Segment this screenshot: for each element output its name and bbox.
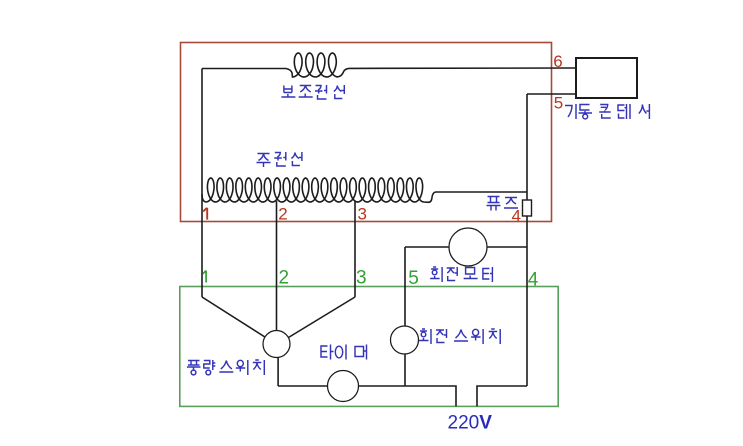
wire tap3 vertical <box>354 201 356 297</box>
wire bottom right with 220V stub <box>477 386 527 406</box>
svg-text:4: 4 <box>528 270 539 291</box>
svg-text:6: 6 <box>553 52 562 71</box>
main winding coil with exit wire to fuse <box>202 178 527 202</box>
label: fuse (퓨즈) <box>487 197 519 211</box>
fuse body <box>523 200 532 216</box>
wire tap3 diagonal to speed switch <box>286 297 355 339</box>
auxiliary winding coil with top wire <box>202 53 576 77</box>
rotation motor circle <box>449 228 487 266</box>
wire motor branch horizontal <box>405 246 527 248</box>
svg-text:3: 3 <box>356 268 367 289</box>
wire capacitor lower lead <box>527 93 576 95</box>
terminal number 1 (red) <box>203 208 207 220</box>
starting capacitor body <box>576 58 637 98</box>
wire tap2 vertical <box>276 201 278 332</box>
timer circle <box>328 371 359 402</box>
wire rotation switch vertical <box>404 247 406 386</box>
control switch group box (green) <box>180 287 558 407</box>
label: rotation switch (회전스위치) <box>419 329 500 344</box>
wire node1 vertical <box>201 69 203 298</box>
label: auxiliary winding (보조권선) <box>281 85 344 99</box>
label: starting capacitor (기동콘덴서) <box>565 104 649 119</box>
svg-text:2: 2 <box>278 205 287 224</box>
svg-text:5: 5 <box>408 268 419 289</box>
wire right vertical through fuse <box>526 94 528 386</box>
svg-text:2: 2 <box>279 268 290 289</box>
terminal number 1 (green) <box>203 271 206 283</box>
svg-text:220V: 220V <box>448 412 493 433</box>
svg-text:5: 5 <box>554 94 563 113</box>
label: fan speed switch (풍량스위치) <box>187 360 264 375</box>
fan speed switch circle <box>263 331 290 358</box>
svg-text:4: 4 <box>512 207 521 226</box>
wire bottom left with 220V stub <box>278 386 456 406</box>
label: main winding (주권선) <box>257 152 302 167</box>
svg-text:3: 3 <box>358 205 367 224</box>
label: rotation motor (회전모터) <box>430 267 492 282</box>
rotation switch circle <box>391 326 419 354</box>
wire tap1 diagonal to speed switch <box>202 297 268 339</box>
label: timer (타이머) <box>321 345 367 360</box>
wire speed switch to bottom <box>277 352 279 386</box>
stator winding group box (red) <box>181 43 552 222</box>
